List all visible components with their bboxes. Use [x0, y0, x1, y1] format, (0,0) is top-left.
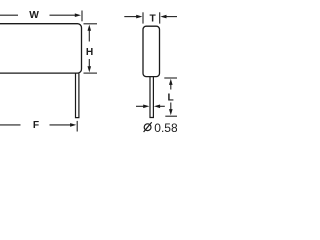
dimension H line lower with arrow down — [88, 59, 90, 68]
dimension L extension line top — [164, 77, 177, 79]
lead (front view) — [76, 73, 79, 117]
lead diameter right arrow — [159, 105, 165, 107]
svg-text:F: F — [33, 120, 39, 131]
dimension H line upper with arrow up — [88, 30, 90, 42]
dimension H extension line top — [84, 23, 98, 25]
dimension T extension line right — [159, 12, 161, 23]
dimension F line — [0, 124, 71, 126]
dimension W extension line — [81, 11, 83, 22]
svg-text:0.58: 0.58 — [154, 121, 177, 135]
capacitor body front view — [0, 24, 82, 73]
capacitor body side view — [143, 26, 160, 76]
svg-text:H: H — [86, 47, 93, 58]
dimension H extension line bottom — [84, 72, 98, 74]
dimension W arrowhead — [75, 13, 81, 17]
dimension F tick extension — [76, 121, 78, 132]
dimension L extension line bottom — [165, 115, 177, 117]
dimension L line upper with arrow up — [170, 84, 172, 90]
lead (side view) — [150, 77, 153, 118]
svg-text:W: W — [29, 10, 39, 21]
dimension F arrowhead — [70, 123, 76, 127]
svg-text:T: T — [149, 13, 156, 24]
dimension L line lower with arrow down — [170, 103, 172, 111]
dimension T right arrow — [166, 16, 178, 18]
dimension T left arrow — [124, 16, 137, 18]
dimension W line — [0, 14, 76, 16]
lead diameter left arrow — [136, 105, 144, 107]
diameter symbol — [144, 124, 151, 131]
svg-text:L: L — [167, 92, 173, 103]
dimension T extension line left — [142, 12, 144, 23]
